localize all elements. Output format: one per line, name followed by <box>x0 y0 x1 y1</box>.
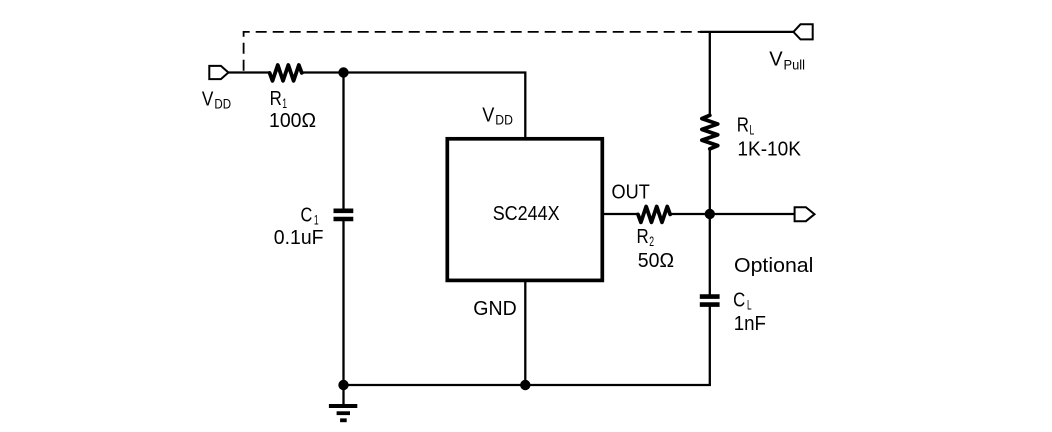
svg-text:R: R <box>637 225 649 248</box>
svg-text:Pull: Pull <box>784 57 806 72</box>
wire node B to CL <box>709 214 711 295</box>
wire R1 to VDD pin <box>302 73 525 141</box>
node C junction C1/ground <box>338 380 348 390</box>
svg-text:R: R <box>737 113 749 136</box>
resistor R1 <box>270 65 302 81</box>
svg-text:V: V <box>769 48 783 71</box>
resistor RL <box>702 115 718 149</box>
wire C1 branch lower <box>342 221 344 385</box>
svg-text:Optional: Optional <box>734 254 813 277</box>
label VPull <box>769 48 805 73</box>
svg-text:DD: DD <box>214 97 231 112</box>
svg-text:C: C <box>301 204 313 227</box>
wire top to VPull terminal <box>700 31 793 33</box>
wire OUT pin to R2 <box>602 213 638 215</box>
terminal VPull <box>793 24 812 39</box>
svg-text:V: V <box>202 88 214 111</box>
terminal VDD input <box>209 66 228 79</box>
label RL <box>737 113 755 137</box>
node D junction GND pin/bottom <box>520 380 530 390</box>
svg-text:R: R <box>270 87 282 110</box>
svg-text:C: C <box>733 288 745 311</box>
label VDD pin <box>482 104 513 128</box>
svg-text:L: L <box>747 297 752 312</box>
svg-text:50Ω: 50Ω <box>638 249 674 272</box>
label VDD input <box>202 88 231 112</box>
wire C1 branch upper <box>342 73 344 210</box>
svg-text:OUT: OUT <box>612 180 651 203</box>
svg-text:L: L <box>750 122 755 137</box>
wire dashed VDD-to-VPull <box>244 32 701 71</box>
svg-text:GND: GND <box>473 297 516 320</box>
resistor R2 <box>638 206 670 222</box>
wire CL to bottom <box>709 307 711 386</box>
wire GND pin <box>524 280 526 385</box>
svg-text:V: V <box>482 104 494 127</box>
svg-text:DD: DD <box>495 113 513 128</box>
label C1 <box>301 204 319 228</box>
terminal output <box>795 207 815 221</box>
ground <box>329 385 357 420</box>
node B junction OUT/RL/CL <box>705 209 715 219</box>
wire VDD terminal to R1 <box>228 71 269 73</box>
svg-text:2: 2 <box>649 234 654 249</box>
wire RL to node B <box>709 148 711 214</box>
svg-text:0.1uF: 0.1uF <box>274 226 324 249</box>
svg-text:100Ω: 100Ω <box>269 109 316 132</box>
op-amp U1 SC244X box <box>447 139 602 281</box>
capacitor CL <box>700 297 720 305</box>
label R1 <box>270 87 287 111</box>
capacitor C1 <box>334 211 354 219</box>
wire R2 to output terminal <box>671 213 795 215</box>
wire bottom GND net <box>344 384 711 386</box>
node A junction R1/C1 <box>338 67 348 77</box>
svg-text:SC244X: SC244X <box>493 202 560 225</box>
svg-text:1K-10K: 1K-10K <box>737 138 801 161</box>
label CL <box>733 288 752 312</box>
wire VPull to RL <box>709 32 711 115</box>
label R2 <box>637 225 655 249</box>
svg-text:1nF: 1nF <box>734 312 766 335</box>
